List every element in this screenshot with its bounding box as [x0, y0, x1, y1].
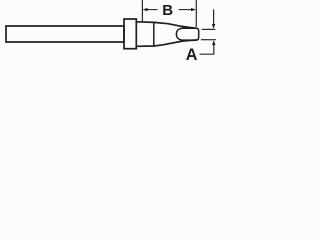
dim A up arrow with leader — [200, 44, 214, 55]
dim B right arrow — [179, 9, 193, 11]
svg-text:A: A — [186, 46, 198, 64]
tip flat capsule — [176, 28, 198, 40]
collar ring — [124, 19, 136, 49]
dim B left arrow — [146, 9, 158, 11]
dim A top extension line — [202, 28, 216, 30]
dim B right extension line — [195, 0, 197, 27]
dim B left extension line — [141, 0, 143, 22]
taper start line — [153, 22, 155, 46]
dim A down arrow — [213, 9, 215, 25]
cone bottom edge — [137, 40, 198, 46]
shaft (tip cylinder body) — [6, 26, 124, 42]
cone top edge — [137, 22, 198, 29]
svg-text:B: B — [162, 2, 173, 19]
dim A bottom extension line — [201, 39, 216, 41]
